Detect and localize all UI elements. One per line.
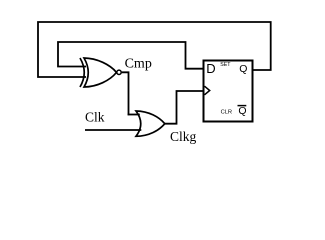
wire : Cmp net from XNOR output bubble down to OR upper input <box>122 72 129 115</box>
wire : inner loop from XNOR upper input to D input of flip-flop <box>58 42 204 69</box>
wire : Clk input into OR lower input <box>85 129 141 131</box>
svg-text:Clkg: Clkg <box>170 129 197 144</box>
gate : XNOR U1 output inversion bubble <box>117 70 121 74</box>
svg-text:CLR: CLR <box>221 110 233 116</box>
svg-text:D: D <box>206 61 215 76</box>
pin label : Q-bar overline <box>238 105 247 107</box>
wire : feedback loop from Q output over the top to XNOR lower input <box>38 22 271 77</box>
svg-text:Clk: Clk <box>85 110 105 125</box>
gate : OR U2 body (clock gate) <box>136 111 165 136</box>
flip-flop U3 : clock edge triangle <box>205 86 210 95</box>
svg-text:Q: Q <box>238 105 246 117</box>
svg-text:SET: SET <box>220 62 231 68</box>
wire : Cmp stub into OR upper input <box>128 114 140 116</box>
flip-flop U3 : D flip-flop box <box>204 61 253 122</box>
wire : Clkg net from OR output up to flip-flop clock pin <box>165 91 204 124</box>
svg-text:Cmp: Cmp <box>125 57 152 72</box>
gate : XNOR U1 extra input arc <box>80 58 84 87</box>
svg-text:Q: Q <box>239 63 247 75</box>
gate : XNOR U1 body (Cmp comparator) <box>84 58 117 87</box>
